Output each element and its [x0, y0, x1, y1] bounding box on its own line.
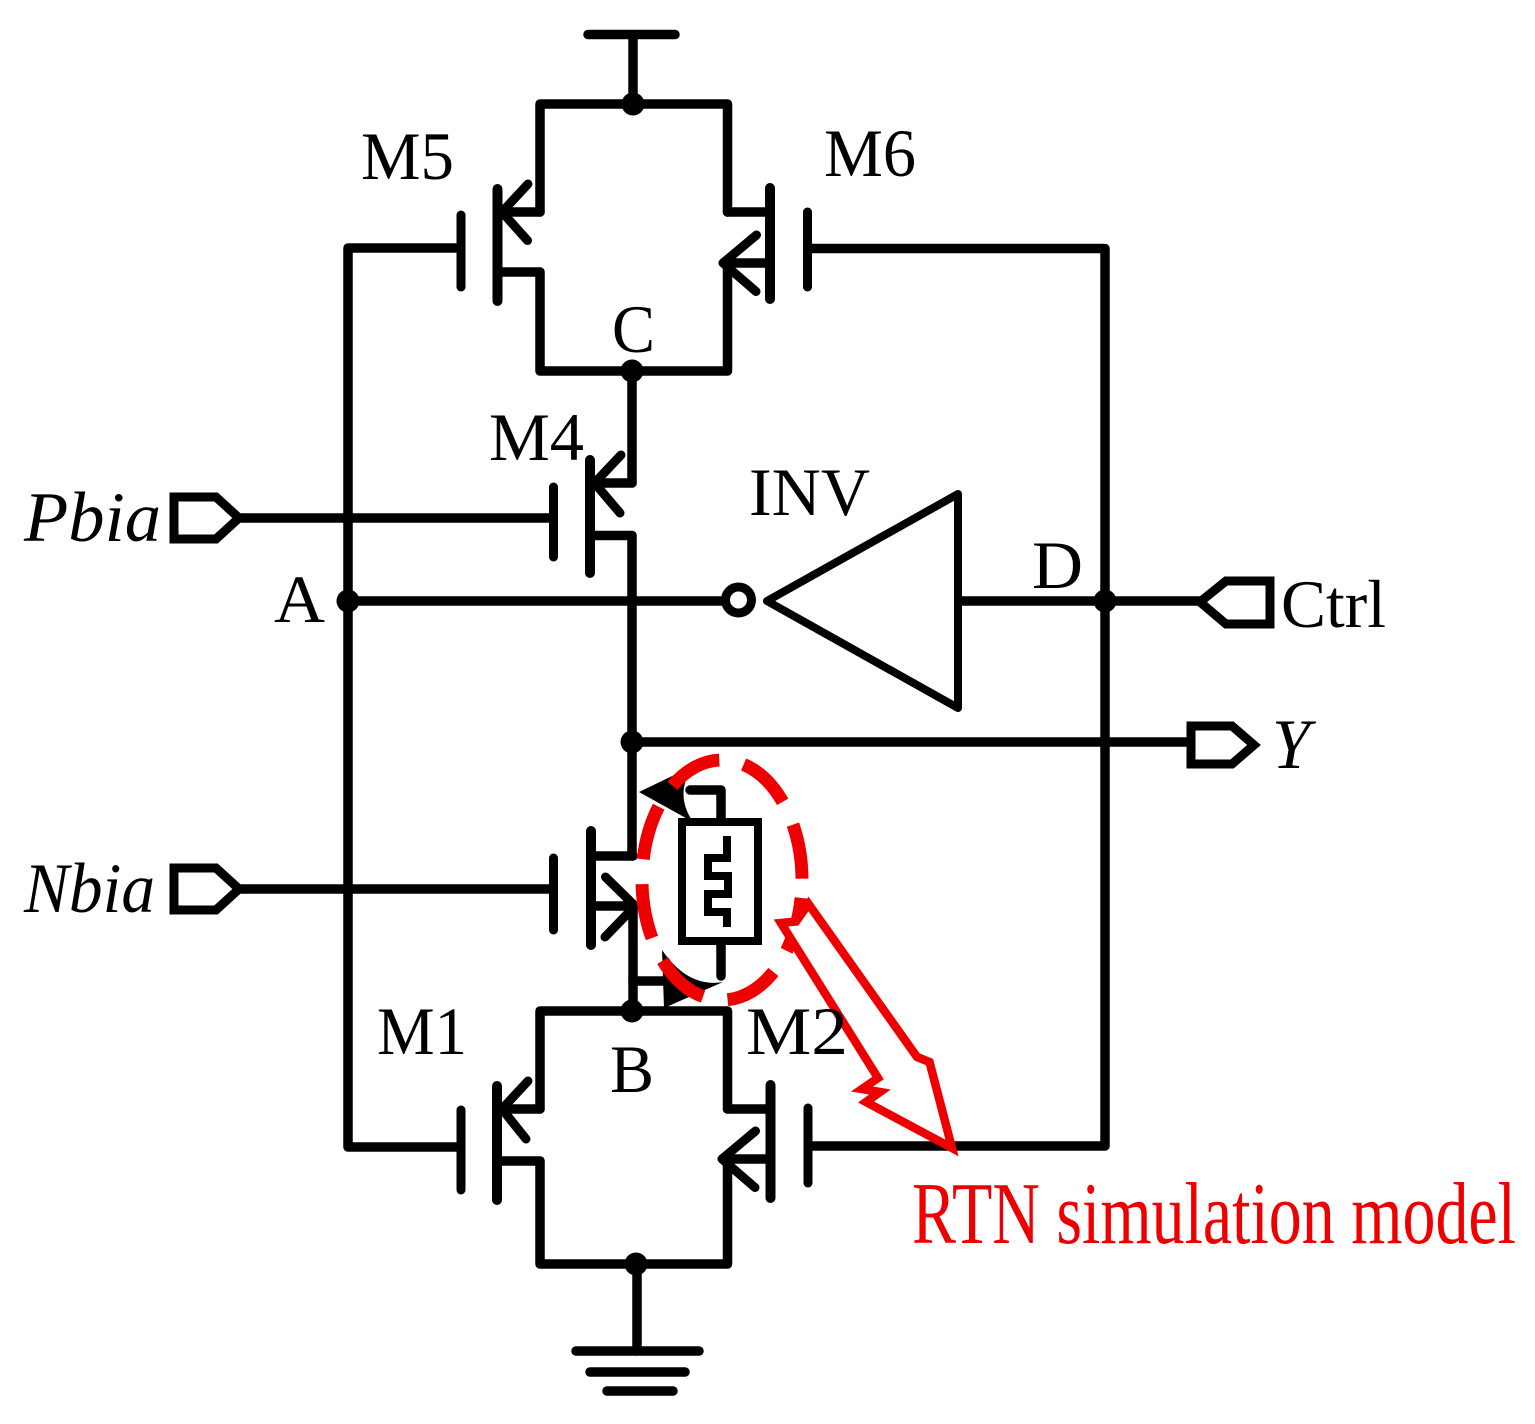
svg-text:Pbia: Pbia [23, 479, 161, 557]
svg-text:M1: M1 [377, 993, 467, 1069]
svg-text:A: A [274, 561, 325, 637]
svg-text:Nbia: Nbia [23, 850, 155, 928]
svg-text:C: C [612, 291, 655, 367]
svg-text:M2: M2 [746, 993, 848, 1069]
svg-text:M5: M5 [361, 118, 454, 194]
svg-text:Y: Y [1272, 706, 1316, 784]
svg-text:M4: M4 [489, 399, 584, 475]
svg-text:RTN simulation model: RTN simulation model [912, 1166, 1516, 1263]
svg-text:M6: M6 [824, 115, 916, 191]
svg-text:D: D [1032, 527, 1083, 603]
svg-text:Ctrl: Ctrl [1281, 566, 1386, 642]
svg-text:INV: INV [749, 454, 870, 530]
svg-text:B: B [610, 1031, 654, 1107]
